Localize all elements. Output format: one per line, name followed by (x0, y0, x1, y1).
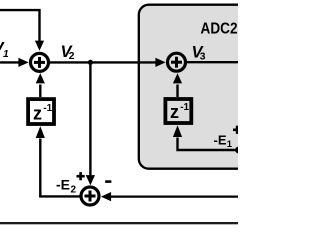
figure bottom rule (0, 222, 238, 224)
svg-text:1: 1 (227, 139, 233, 150)
svg-text:ADC2: ADC2 (201, 21, 238, 38)
wire feedback -E1 into Z2 (from right edge, left then up) (173, 125, 238, 150)
label V1 (0, 40, 9, 61)
delay block Z1 (z^-1) (28, 99, 54, 124)
summing node S1 (31, 53, 49, 71)
label -E2 (56, 177, 77, 196)
wire S1 to S2 (50, 58, 166, 67)
wire Z2 to S2 (173, 73, 182, 97)
svg-text:1: 1 (3, 49, 9, 60)
node on -E1 wire at right edge (235, 147, 242, 154)
wire into S3 from right (101, 192, 238, 201)
node junction V2 (88, 60, 93, 65)
sign plus at S3 top input (77, 172, 85, 180)
svg-text:-1: -1 (180, 102, 189, 113)
sign minus at S3 right input (105, 180, 111, 183)
label V2 (61, 43, 75, 62)
sign plus near right edge above -E1 wire (233, 126, 241, 134)
wire Z1 to S1 (36, 73, 45, 97)
wire input V1 (0, 58, 29, 67)
wire S2 output right (187, 61, 238, 63)
arrowhead into S1 top (35, 41, 44, 51)
svg-text:2: 2 (71, 185, 77, 196)
summing node S2 (168, 53, 186, 71)
label V3 (192, 43, 206, 62)
label ADC2 (201, 21, 238, 38)
svg-text:2: 2 (69, 51, 75, 62)
wire junction down to S3 (86, 62, 95, 185)
svg-text:z: z (170, 102, 179, 122)
svg-text:-E: -E (214, 132, 227, 147)
delay block Z2 (z^-1) (165, 99, 191, 123)
svg-text:-1: -1 (43, 103, 52, 114)
svg-text:z: z (33, 103, 42, 123)
label -E1 (214, 132, 233, 150)
svg-text:-E: -E (56, 177, 70, 193)
wire feedback -E2 into Z1 (from S3 output, left then up) (36, 126, 80, 196)
summing node S3 (81, 187, 99, 205)
ADC2 stage panel (139, 5, 259, 169)
wire feedback top (from left edge to corner above S1) (0, 10, 40, 41)
svg-text:3: 3 (200, 52, 206, 63)
